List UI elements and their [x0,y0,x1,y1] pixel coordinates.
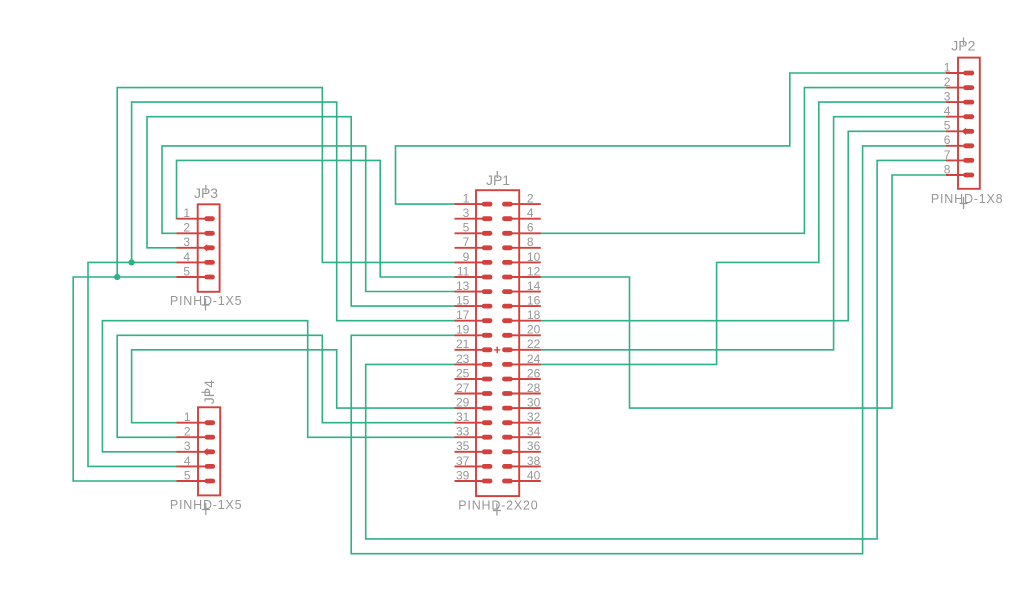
JP4 pin 3 stub+pad [177,451,206,453]
svg-text:21: 21 [456,337,470,351]
wire net JP4.3 - JP1.33 [102,321,455,452]
JP1 pin 15 stub+pad [455,305,483,307]
wire net JP3.4 branch to JP1.17 [132,102,455,321]
JP1 pin 17 stub+pad [455,320,483,322]
svg-text:JP1: JP1 [486,172,510,188]
JP1 pin 6 stub+pad [512,232,541,234]
JP3 body outline [198,204,220,291]
svg-text:37: 37 [456,454,470,468]
JP2 pin 1 stub+pad [946,72,965,74]
JP4 value origin cross [202,503,210,515]
JP1 pin 14 stub+pad [512,291,541,293]
svg-text:10: 10 [527,250,541,264]
svg-text:9: 9 [463,250,470,264]
wire net JP1.12 - JP2.8 [541,175,946,408]
svg-text:33: 33 [456,425,470,439]
svg-text:2: 2 [184,425,191,439]
JP3 pin 5 stub+pad [177,276,206,278]
JP1 pin 36 stub+pad [512,451,541,453]
svg-text:27: 27 [456,381,470,395]
JP2 name origin tick [963,38,965,46]
svg-text:8: 8 [944,162,951,176]
JP1 pin 22 stub+pad [512,349,541,351]
wire net JP1.1 - JP2.1 [396,73,947,204]
JP1 pin 20 stub+pad [512,334,541,336]
svg-text:15: 15 [456,294,470,308]
svg-text:16: 16 [527,294,541,308]
svg-text:7: 7 [944,148,951,162]
svg-text:2: 2 [944,75,951,89]
JP2 pin 4 stub+pad [946,116,965,118]
svg-text:26: 26 [527,366,541,380]
JP1 pin 19 stub+pad [455,334,483,336]
svg-text:18: 18 [527,308,541,322]
JP1 pin 32 stub+pad [512,422,541,424]
JP1 pin 33 stub+pad [455,436,483,438]
JP1 name origin tick [496,171,498,178]
svg-text:6: 6 [944,133,951,147]
svg-text:4: 4 [184,454,191,468]
JP1 pin 26 stub+pad [512,378,541,380]
JP1 value origin cross [493,504,501,516]
JP3 pin 4 stub+pad [177,261,206,263]
svg-text:3: 3 [944,90,951,104]
svg-text:6: 6 [527,221,534,235]
JP2 pin 6 stub+pad [946,145,965,147]
JP2 pin 5 stub+pad [946,130,965,132]
svg-text:4: 4 [944,104,951,118]
wire net JP3.4 - JP4.4 trunk [88,262,177,466]
svg-text:19: 19 [456,323,470,337]
JP3 pin 2 stub+pad [177,232,206,234]
JP1 pin 24 stub+pad [512,363,541,365]
JP2 pin 7 stub+pad [946,159,965,161]
JP1 pin 31 stub+pad [455,422,483,424]
JP1 pin 12 stub+pad [512,276,541,278]
junction dot on net JP3.4 at (131.4,262.4) [129,259,135,265]
JP1 pin 9 stub+pad [455,261,483,263]
svg-text:25: 25 [456,366,470,380]
JP1 pin 1 stub+pad [455,203,483,205]
JP4 pin 4 stub+pad [177,465,206,467]
JP1 origin cross [494,347,500,354]
svg-text:3: 3 [184,439,191,453]
svg-text:13: 13 [456,279,470,293]
JP1 pin 7 stub+pad [455,247,483,249]
svg-text:8: 8 [527,235,534,249]
JP2 pin 8 stub+pad [946,174,965,176]
svg-text:34: 34 [527,425,541,439]
JP1 body outline [476,190,519,496]
svg-text:36: 36 [527,439,541,453]
svg-text:7: 7 [463,235,470,249]
connector JP3 PINHD-1X5 [170,185,243,311]
JP1 pin 21 stub+pad [455,349,483,351]
svg-text:32: 32 [527,410,541,424]
svg-text:22: 22 [527,337,541,351]
JP1 pin 40 stub+pad [512,480,541,482]
JP2 pin 2 stub+pad [946,87,965,89]
JP1 pin 8 stub+pad [512,247,541,249]
JP4 pin 1 stub+pad [177,422,206,424]
JP4 pin 2 stub+pad [177,436,206,438]
JP1 pin 39 stub+pad [455,480,483,482]
JP2 body outline [958,58,980,189]
wire net JP1.18 - JP2.5 [541,131,946,320]
wire net JP3.2 - JP1.13 [162,146,455,292]
svg-text:35: 35 [456,439,470,453]
JP1 pin 29 stub+pad [455,407,483,409]
JP3 pin 1 stub+pad [177,218,206,220]
connector JP2 PINHD-1X8 [931,38,1004,210]
connector JP4 PINHD-1X5 [170,380,243,515]
JP1 pin 37 stub+pad [455,465,483,467]
JP1 pin 35 stub+pad [455,451,483,453]
JP1 pin 30 stub+pad [512,407,541,409]
svg-text:PINHD-1X5: PINHD-1X5 [170,294,243,308]
JP1 pin 5 stub+pad [455,232,483,234]
svg-text:1: 1 [944,60,951,74]
svg-text:5: 5 [463,221,470,235]
svg-text:39: 39 [456,468,470,482]
JP1 pin 23 stub+pad [455,363,483,365]
junction dot on net JP3.5 at (117,277) [114,274,120,280]
JP4 name origin tick [202,391,210,393]
JP1 pin 27 stub+pad [455,393,483,395]
JP1 pin 18 stub+pad [512,320,541,322]
svg-text:23: 23 [456,352,470,366]
wire net JP1.19 - JP2.6 [351,146,946,554]
svg-text:14: 14 [527,279,541,293]
JP1 pin 34 stub+pad [512,436,541,438]
JP2 value origin cross [960,197,968,209]
svg-text:1: 1 [463,192,470,206]
svg-text:3: 3 [463,206,470,220]
svg-text:3: 3 [183,235,190,249]
JP1 pin 11 stub+pad [455,276,483,278]
svg-text:31: 31 [456,410,470,424]
JP3 pin 3 stub+pad [177,247,206,249]
wire net JP3.5 - JP4.5 trunk [73,277,176,481]
svg-text:4: 4 [183,250,190,264]
JP2 pin 3 stub+pad [946,101,965,103]
JP1 pin 13 stub+pad [455,291,483,293]
JP1 pin 2 stub+pad [512,203,541,205]
svg-text:5: 5 [183,264,190,278]
svg-text:40: 40 [527,468,541,482]
wire net JP3.5 branch to JP1.9 [117,88,455,277]
wire net JP1.24 - JP2.3 [541,102,946,364]
svg-text:5: 5 [184,468,191,482]
svg-text:5: 5 [944,119,951,133]
JP1 pin 16 stub+pad [512,305,541,307]
svg-text:24: 24 [527,352,541,366]
JP4 pin 5 stub+pad [177,480,206,482]
svg-text:12: 12 [527,264,541,278]
svg-text:38: 38 [527,454,541,468]
JP4 body outline [198,407,220,495]
svg-text:4: 4 [527,206,534,220]
svg-text:20: 20 [527,323,541,337]
wire net JP3.3 - JP1.15 [147,117,455,306]
wire net JP1.23 - JP2.7 [366,160,946,539]
connector JP1 PINHD-2X20 [455,171,541,516]
wire net JP3.1 - JP1.11 [177,160,456,277]
svg-text:2: 2 [183,221,190,235]
JP1 pin 4 stub+pad [512,218,541,220]
svg-text:2: 2 [527,192,534,206]
svg-text:1: 1 [184,410,191,424]
JP1 pin 3 stub+pad [455,218,483,220]
svg-text:28: 28 [527,381,541,395]
JP1 pin 25 stub+pad [455,378,483,380]
svg-text:11: 11 [457,264,470,278]
svg-text:1: 1 [183,206,190,220]
wire net JP1.6 - JP2.2 [541,88,946,234]
JP1 pin 38 stub+pad [512,465,541,467]
wire net JP1.22 - JP2.4 [541,117,946,350]
svg-text:30: 30 [527,396,541,410]
wire net JP4.2 - JP1.31 [117,335,455,437]
JP1 pin 10 stub+pad [512,261,541,263]
svg-text:17: 17 [456,308,470,322]
JP3 name origin tick [205,185,207,193]
svg-text:29: 29 [456,396,470,410]
JP3 value origin cross [202,299,210,311]
JP1 pin 28 stub+pad [512,393,541,395]
wire net JP4.1 - JP1.29 [132,350,455,423]
